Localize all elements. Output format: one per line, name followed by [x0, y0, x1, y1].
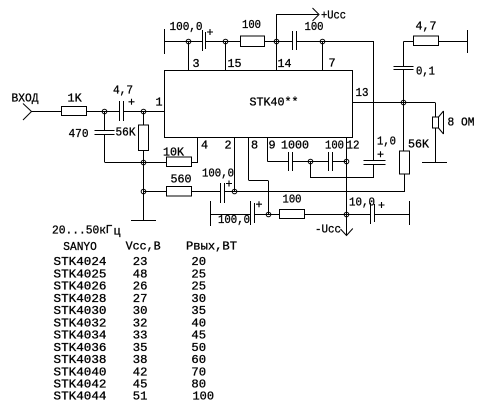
svg-text:3: 3: [193, 57, 200, 71]
svg-text:1000: 1000: [281, 138, 309, 152]
svg-text:100,0: 100,0: [202, 167, 234, 181]
svg-text:1,0: 1,0: [377, 135, 396, 149]
svg-text:14: 14: [278, 57, 292, 71]
svg-text:ВХОД: ВХОД: [12, 92, 39, 106]
svg-text:100: 100: [283, 193, 302, 207]
svg-text:2: 2: [225, 138, 232, 152]
svg-text:100,0: 100,0: [218, 213, 250, 227]
svg-text:12: 12: [347, 138, 360, 152]
svg-text:STK4044: STK4044: [54, 390, 107, 404]
svg-text:4,7: 4,7: [416, 20, 437, 34]
svg-text:Рвых,ВТ: Рвых,ВТ: [186, 239, 237, 253]
svg-text:4: 4: [201, 138, 208, 152]
svg-text:7: 7: [329, 57, 336, 71]
svg-text:100,0: 100,0: [170, 20, 203, 34]
svg-text:STK40**: STK40**: [250, 96, 299, 110]
svg-text:20...50к: 20...50к: [52, 224, 106, 238]
svg-text:+Ucc: +Ucc: [321, 9, 346, 23]
svg-text:100: 100: [242, 18, 261, 32]
svg-text:1: 1: [156, 96, 163, 110]
svg-text:100: 100: [193, 390, 215, 404]
svg-text:51: 51: [133, 390, 148, 404]
svg-text:8: 8: [251, 138, 258, 152]
svg-text:SANYO: SANYO: [63, 240, 97, 254]
svg-text:9: 9: [269, 138, 276, 152]
svg-text:10,0: 10,0: [349, 196, 375, 210]
svg-text:-Ucc: -Ucc: [315, 223, 341, 237]
svg-text:ц: ц: [114, 225, 121, 239]
svg-text:560: 560: [171, 173, 192, 187]
svg-text:Г: Г: [106, 223, 113, 237]
svg-text:470: 470: [69, 127, 89, 141]
svg-text:Vcc,B: Vcc,B: [126, 239, 161, 253]
svg-text:56K: 56K: [408, 138, 430, 152]
svg-text:8 ОМ: 8 ОМ: [448, 116, 475, 130]
svg-text:1K: 1K: [68, 92, 83, 106]
svg-text:13: 13: [356, 86, 369, 100]
svg-text:100: 100: [325, 138, 344, 152]
svg-text:56K: 56K: [116, 126, 137, 140]
svg-text:10K: 10K: [163, 146, 185, 160]
svg-text:0,1: 0,1: [416, 65, 435, 79]
svg-text:4,7: 4,7: [113, 84, 133, 98]
svg-text:15: 15: [228, 57, 242, 71]
